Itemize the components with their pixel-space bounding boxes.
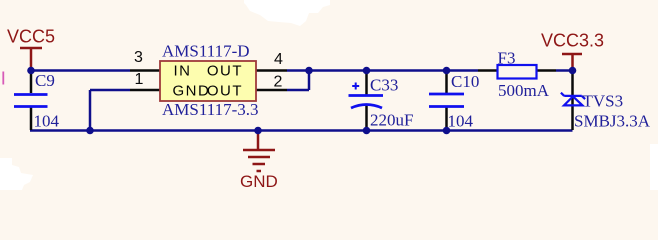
svg-text:C33: C33 [370, 76, 398, 95]
svg-text:VCC5: VCC5 [7, 27, 55, 47]
svg-text:GND: GND [240, 172, 278, 190]
svg-text:AMS1117-D: AMS1117-D [162, 42, 250, 61]
svg-text:C10: C10 [451, 72, 479, 91]
svg-text:3: 3 [134, 49, 143, 66]
svg-text:GND: GND [173, 83, 211, 100]
svg-text:C9: C9 [35, 71, 55, 90]
svg-text:OUT: OUT [207, 83, 243, 100]
svg-text:1: 1 [135, 71, 144, 88]
svg-text:AMS1117-3.3: AMS1117-3.3 [162, 100, 259, 119]
svg-text:104: 104 [448, 112, 474, 131]
svg-text:4: 4 [274, 51, 283, 68]
svg-text:F3: F3 [498, 49, 516, 68]
svg-text:IN: IN [174, 63, 192, 80]
svg-text:OUT: OUT [207, 63, 243, 80]
svg-text:220uF: 220uF [370, 111, 413, 130]
svg-text:SMBJ3.3A: SMBJ3.3A [574, 112, 651, 131]
svg-text:VCC3.3: VCC3.3 [541, 31, 604, 51]
svg-text:104: 104 [34, 112, 60, 131]
svg-text:500mA: 500mA [498, 81, 550, 100]
svg-text:TVS3: TVS3 [583, 92, 624, 111]
svg-text:2: 2 [274, 74, 283, 91]
